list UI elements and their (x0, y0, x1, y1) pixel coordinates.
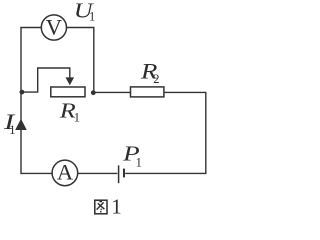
ammeter A circle (52, 160, 78, 186)
wire: battery to ammeter (78, 172, 118, 174)
wire: junction to R2 (93, 91, 130, 93)
voltmeter U1 circle (41, 15, 66, 40)
caption: hanzi "tu" (figure) drawn as paths (95, 200, 107, 214)
wire: wiper arm of rheostat (22, 68, 70, 92)
battery P1: short plate (123, 169, 125, 178)
svg-text:A: A (57, 160, 74, 185)
node: right junction dot (91, 90, 96, 95)
wire: voltmeter right lead (67, 28, 94, 91)
node: left junction dot (20, 90, 25, 95)
svg-text:1: 1 (9, 123, 15, 137)
svg-text:1: 1 (89, 9, 95, 23)
resistor R2 box (131, 87, 164, 97)
battery P1: long plate (118, 165, 120, 183)
svg-text:2: 2 (153, 72, 159, 86)
svg-text:1: 1 (136, 155, 142, 169)
wire: R2 to right side and bottom to battery (125, 92, 206, 173)
resistor R1 (rheostat box) (51, 87, 85, 97)
svg-text:1: 1 (74, 110, 80, 124)
wiper arrowhead pointing down at R1 (66, 77, 75, 85)
wire: left outer loop (top corner, left side, bottom-left to ammeter) (21, 28, 52, 174)
svg-text:V: V (46, 14, 62, 39)
svg-text:1: 1 (111, 194, 122, 218)
current arrow I1 on left wire (15, 119, 27, 130)
